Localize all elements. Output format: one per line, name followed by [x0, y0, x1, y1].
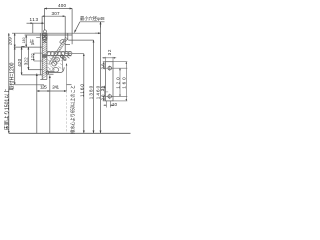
svg-text:120: 120	[115, 77, 120, 89]
svg-text:160: 160	[122, 77, 127, 89]
svg-text:420: 420	[17, 58, 22, 66]
svg-text:125: 125	[40, 84, 47, 89]
svg-text:10: 10	[112, 102, 117, 107]
svg-text:180: 180	[22, 37, 26, 43]
svg-text:最小穴径φ48: 最小穴径φ48	[80, 15, 105, 22]
svg-text:32: 32	[107, 49, 112, 55]
svg-text:排水心より650以上のこと: 排水心より650以上のこと	[70, 85, 77, 134]
svg-text:209: 209	[7, 37, 12, 45]
svg-text:400: 400	[58, 3, 66, 8]
svg-text:1160: 1160	[79, 84, 84, 97]
svg-text:床面より1501以上: 床面より1501以上	[3, 89, 10, 131]
svg-text:20: 20	[100, 63, 105, 69]
svg-text:113: 113	[30, 17, 39, 22]
svg-text:取付H=1200: 取付H=1200	[8, 62, 15, 90]
svg-text:35: 35	[100, 85, 105, 91]
svg-text:20: 20	[100, 94, 105, 100]
svg-text:322: 322	[24, 57, 29, 65]
svg-text:307: 307	[52, 11, 60, 16]
svg-text:1380: 1380	[89, 85, 94, 99]
svg-text:241: 241	[52, 84, 59, 89]
